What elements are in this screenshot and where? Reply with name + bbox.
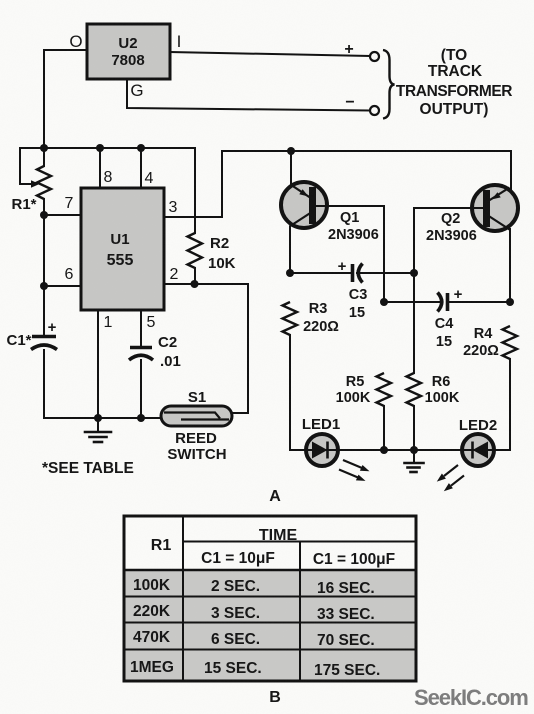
table row line 1	[124, 596, 416, 598]
wire R3 bottom to LED1 anode	[290, 335, 306, 450]
pin 2 wire	[164, 284, 248, 413]
table of R1 vs time	[124, 516, 416, 681]
wire Q2 base rail down to R6	[413, 273, 415, 373]
wire Q2 emitter drop	[510, 151, 512, 190]
wire Q1 base rail to C4	[384, 301, 440, 303]
wire Q1 collector down to C3 node	[289, 227, 291, 273]
potentiometer R1 wiper arm	[20, 148, 44, 184]
wire C4 to Q2 collector node	[448, 301, 510, 303]
table grey data rows background	[124, 570, 416, 681]
table horizontal line under TIME	[183, 541, 416, 543]
wire Q2 base to x415 rail	[414, 208, 483, 273]
wire C2 bottom to ground bus	[140, 360, 142, 418]
wire R5 bottom to bus	[383, 406, 385, 450]
reed switch S1	[161, 406, 232, 426]
regulator U2 7808	[87, 24, 170, 79]
node junction C3 / Q2 base rail	[410, 269, 418, 277]
node junction R6 / ground	[410, 446, 418, 454]
note (TO TRACK TRANSFORMER OUTPUT)	[396, 47, 512, 118]
resistor R3	[283, 302, 298, 335]
wire R4 bottom to LED2 anode	[494, 359, 510, 450]
wire U2 ground G to - terminal	[127, 79, 370, 111]
wire bottom-left ground bus	[44, 417, 162, 419]
LED1	[306, 434, 338, 466]
wire C3 to Q2 base rail	[357, 272, 414, 274]
ground symbol right	[405, 450, 424, 472]
LED1 light arrows	[339, 460, 370, 481]
table outer border	[124, 516, 416, 681]
capacitor C3	[338, 258, 363, 283]
terminal + (open circle)	[370, 52, 379, 61]
table vertical divider col2	[299, 542, 301, 682]
ground symbol left	[85, 418, 111, 442]
node junction output bus / Q1 emitter	[287, 147, 295, 155]
wire +8V left bus	[44, 147, 195, 149]
pin 1 wire	[97, 310, 99, 418]
pin 7 wire	[44, 214, 81, 216]
wire left rail C1 to bottom bus	[43, 350, 45, 418]
timer U1 555	[81, 188, 164, 310]
LED2	[462, 434, 494, 466]
node junction pin5 / ground bus	[137, 414, 145, 422]
wire bottom mid bus	[338, 449, 462, 451]
wire Q2 collector down to C4 node	[509, 229, 511, 302]
node junction C4 / Q2 collector	[506, 298, 514, 306]
node junction pin7 / left rail	[40, 211, 48, 219]
node junction pin4 / bus	[137, 144, 145, 152]
table row line 2	[124, 622, 416, 624]
transistor Q2 2N3906	[472, 185, 518, 231]
node junction pin6 / left rail	[40, 282, 48, 290]
wire U2 input I to + terminal	[170, 52, 370, 56]
wire U2 output O to left rail	[44, 50, 87, 148]
resistor R4	[503, 326, 518, 359]
potentiometer R1 zigzag	[37, 166, 51, 199]
capacitor C2	[129, 348, 153, 361]
wire bus to R2 top	[194, 148, 196, 233]
pin 6 wire	[44, 285, 81, 287]
table horizontal line under header	[124, 569, 416, 572]
table row line 3	[124, 649, 416, 651]
wire left rail R1 bottom to C1	[43, 199, 45, 334]
wire left rail bus to R1 top	[43, 148, 45, 166]
terminal - (open circle)	[370, 106, 379, 115]
wire R2 bottom to pin 2	[194, 268, 196, 284]
node junction R5 / bus	[380, 446, 388, 454]
brace to transformer terminals	[383, 50, 395, 119]
node junction Q1 collector / C3 / R3	[286, 269, 294, 277]
node junction pin8 / bus	[96, 144, 104, 152]
paper grain overlay (decorative)	[0, 0, 1, 1]
capacitor C4	[438, 286, 463, 312]
resistor R5	[377, 373, 392, 406]
pin 4 wire	[140, 148, 142, 188]
pin 3 wire to output bus	[164, 151, 511, 217]
pin 5 wire	[140, 310, 142, 346]
wire R6 bottom to ground node	[413, 406, 415, 450]
node junction left rail / bus	[40, 144, 48, 152]
node junction pin1 / ground	[94, 414, 102, 422]
node junction C4 / Q1 base rail	[380, 298, 388, 306]
resistor R2	[188, 233, 203, 268]
wire Q1 collector node to C3	[290, 272, 352, 274]
node junction pin2 / R2	[191, 280, 199, 288]
wire reed switch right lead up to pin 2	[232, 412, 248, 414]
LED2 light arrows	[437, 465, 464, 491]
table vertical divider col1	[182, 516, 184, 681]
resistor R6	[407, 373, 422, 406]
transistor Q1 2N3906	[281, 182, 327, 228]
wire Q1 emitter drop	[290, 151, 292, 185]
capacitor C1	[31, 319, 57, 350]
wire Q1 base to x384 rail	[316, 206, 384, 302]
pin 8 wire	[99, 148, 101, 188]
